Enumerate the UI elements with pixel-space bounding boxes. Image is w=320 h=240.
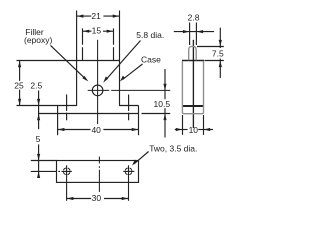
dim 15: line bbox=[83, 30, 114, 32]
leader filler epoxy bbox=[51, 45, 86, 79]
side view: 2.8 ext right bbox=[195, 23, 197, 46]
arrow dim15 left bbox=[83, 30, 90, 33]
dim 10.5: line bbox=[164, 69, 166, 138]
dim 7.5: line bbox=[219, 28, 221, 78]
svg-text:(epoxy): (epoxy) bbox=[24, 35, 53, 45]
svg-text:7.5: 7.5 bbox=[212, 48, 224, 58]
arrow dim25 up bbox=[18, 61, 21, 68]
dim 5: line bbox=[38, 144, 40, 177]
svg-text:10: 10 bbox=[189, 125, 199, 135]
arrow dim2.8 right bbox=[197, 30, 204, 33]
dim 21: line bbox=[77, 15, 120, 17]
arrow dim2.8 left bbox=[183, 30, 190, 33]
svg-text:21: 21 bbox=[91, 11, 101, 21]
arrow dim5 down upper bbox=[37, 154, 40, 161]
front view: sensor hole circle 5.8 dia bbox=[92, 85, 103, 96]
svg-text:25: 25 bbox=[14, 80, 24, 90]
dim 15: extension left bbox=[82, 28, 84, 60]
front view: tower right edge + 21 extension bbox=[119, 11, 121, 106]
svg-text:2.5: 2.5 bbox=[30, 80, 42, 90]
svg-text:2.8: 2.8 bbox=[188, 12, 200, 22]
arrow dim2.5 down upper bbox=[37, 99, 40, 106]
arrow dim15 right bbox=[107, 30, 114, 33]
bottom view: 5 dim top extension bbox=[31, 160, 57, 162]
dim 10 side: ext right bbox=[203, 115, 205, 135]
bottom view: left hole dashed circle bbox=[63, 168, 70, 175]
bottom view: right hole dashed circle bbox=[125, 168, 132, 175]
dim 10 side: line left segment bbox=[175, 129, 188, 131]
arrowheads bbox=[18, 15, 222, 201]
arrow dim7.5 down upper bbox=[219, 40, 222, 47]
dim 7.5: top extension bbox=[197, 46, 224, 48]
bottom view: vertical centerline dash-dot bbox=[98, 157, 100, 192]
dim 10.5: bottom extension bbox=[142, 113, 171, 115]
svg-text:40: 40 bbox=[91, 125, 101, 135]
dim 7.5: bottom extension bbox=[205, 60, 224, 62]
arrow dim21 right bbox=[113, 15, 120, 18]
front view: hole edge line / 40 left extension bbox=[57, 106, 59, 136]
arrow dim30 right bbox=[122, 197, 129, 200]
side view: 2.8 dim line bbox=[174, 31, 214, 33]
side view: 2.8 ext left bbox=[189, 23, 191, 46]
arrow dim10.5 down upper bbox=[163, 84, 166, 91]
side view: inner epoxy line bbox=[183, 105, 203, 107]
arrow dim2.5 up lower bbox=[37, 114, 40, 121]
dim 2.5: line bbox=[38, 91, 40, 130]
arrow case leader bbox=[120, 76, 125, 82]
arrow dim30 left bbox=[67, 197, 74, 200]
bottom view: horizontal centerline left + 5 mid extension bbox=[31, 170, 72, 172]
front view: wing top edge left + 25 bottom extension bbox=[17, 105, 77, 107]
side view: body top edge bbox=[182, 60, 204, 62]
dim 15: extension right bbox=[113, 28, 115, 60]
leader two 3.5 dia bbox=[134, 152, 149, 164]
side view gray case: body outline bbox=[182, 61, 203, 114]
arrow dim10.5 up lower bbox=[163, 114, 166, 121]
dim 40: line bbox=[58, 129, 139, 131]
arrow dim5 up lower bbox=[37, 172, 40, 179]
dim 30: line bbox=[67, 198, 129, 200]
front view: left hole centerline bbox=[66, 95, 68, 121]
dim 10 side: ext left bbox=[182, 115, 184, 135]
svg-text:10.5: 10.5 bbox=[154, 99, 171, 109]
dim 10 side: line right segment bbox=[198, 129, 213, 131]
leader case bbox=[123, 64, 143, 79]
svg-text:Case: Case bbox=[141, 54, 161, 64]
front view: vertical centerline bbox=[97, 40, 99, 124]
arrow dim7.5 up lower bbox=[219, 61, 222, 68]
front view: base right edge + 40 extension bbox=[138, 106, 140, 136]
side view: centerline bbox=[192, 40, 194, 128]
arrow dim25 down bbox=[18, 99, 21, 106]
svg-text:5: 5 bbox=[36, 134, 41, 144]
svg-text:15: 15 bbox=[92, 26, 102, 36]
bottom view: outline rect bbox=[57, 161, 139, 183]
bottom view: right hole horizontal crosshair bbox=[123, 170, 134, 172]
dim 25: line bbox=[19, 61, 21, 106]
arrow dim21 left bbox=[77, 15, 84, 18]
arrow dim10 right-pointing bbox=[176, 128, 183, 131]
front view: base bottom edge bbox=[38, 113, 138, 115]
front view: right hole centerline bbox=[128, 95, 130, 121]
svg-text:Two, 3.5 dia.: Two, 3.5 dia. bbox=[149, 143, 197, 153]
arrow filler leader bbox=[82, 76, 88, 82]
leader 5.8 dia bbox=[106, 41, 141, 80]
bottom view: right hole crosshair vertical / 30 ext bbox=[128, 165, 130, 201]
svg-text:5.8 dia.: 5.8 dia. bbox=[136, 30, 164, 40]
arrow dim40 left bbox=[58, 128, 65, 131]
arrow two3.5 leader bbox=[132, 159, 137, 165]
front view: tower left edge + 21 extension bbox=[76, 11, 78, 106]
front view: tower top edge + 25 top extension bbox=[17, 60, 120, 62]
arrow dim10 left-pointing bbox=[204, 128, 211, 131]
arrow 5.8 leader bbox=[103, 76, 108, 82]
svg-text:30: 30 bbox=[92, 193, 102, 203]
front view: wing top edge right bbox=[120, 105, 139, 107]
side view gray case: tab outline bbox=[182, 46, 203, 113]
front view: horizontal centerline + 10.5 top extension bbox=[88, 89, 171, 91]
bottom view: left hole crosshair vertical / 30 ext bbox=[66, 165, 68, 201]
arrow dim40 right bbox=[132, 128, 139, 131]
